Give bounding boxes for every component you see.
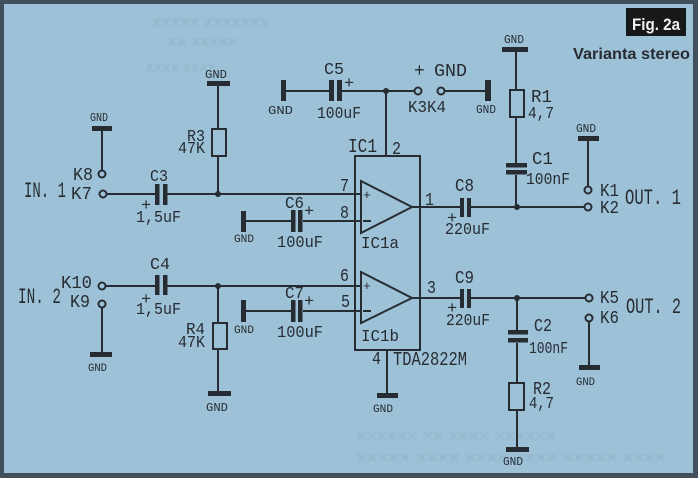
- capacitor C2: [508, 317, 568, 359]
- terminal K3: [408, 62, 427, 118]
- wire (K4 to ground): [445, 90, 486, 92]
- ground (left of C6): [234, 211, 254, 246]
- svg-text:K2: K2: [600, 199, 619, 219]
- ground (left of C5): [268, 80, 293, 118]
- ground (left of C7): [234, 300, 254, 337]
- capacitor C6: [277, 195, 323, 253]
- wire (C8 to K2): [471, 206, 584, 208]
- wire (R3 to node): [217, 156, 219, 194]
- svg-text:OUT. 1: OUT. 1: [625, 186, 681, 211]
- svg-text:Varianta stereo: Varianta stereo: [573, 46, 690, 63]
- wire (ground to K8): [101, 131, 103, 170]
- ground (above K8): [90, 111, 112, 131]
- svg-text:GND: GND: [576, 122, 596, 136]
- wire (C9 to K5): [471, 297, 585, 299]
- ground (above K1): [576, 122, 599, 141]
- svg-text:47K: 47K: [178, 140, 206, 159]
- svg-text:4,7: 4,7: [528, 105, 554, 124]
- node IN.1 label: [24, 179, 66, 204]
- subtitle Varianta stereo: [573, 46, 690, 63]
- ground (below R4): [206, 391, 231, 415]
- node supply junction: [383, 88, 389, 94]
- terminal K10: [61, 274, 106, 294]
- wire (C4 to op-amp pin 6): [167, 285, 361, 287]
- resistor R2: [509, 380, 554, 414]
- pin 3 label: [427, 279, 436, 299]
- svg-text:C2: C2: [534, 317, 552, 337]
- node junction C9/C2: [514, 295, 520, 301]
- svg-text:220uF: 220uF: [445, 221, 490, 240]
- ground (below pin 4): [373, 393, 398, 416]
- pin 4 label: [372, 350, 381, 370]
- node OUT.1 label: [625, 186, 681, 211]
- ghost bleedthrough text bottom: [356, 427, 667, 464]
- terminal K8: [73, 166, 106, 186]
- svg-text:K7: K7: [71, 185, 92, 205]
- svg-text:IC1a: IC1a: [361, 235, 399, 254]
- wire (pin 1 to C8): [412, 206, 460, 208]
- op-amp IC1b: [361, 272, 412, 347]
- ground (above R3): [205, 68, 230, 86]
- node IN.2 label: [18, 285, 61, 310]
- wire (ground to R3): [217, 86, 219, 129]
- svg-text:6: 6: [340, 267, 349, 287]
- svg-text:K6: K6: [600, 309, 619, 329]
- svg-text:47K: 47K: [178, 334, 206, 353]
- wire (R1 to C1): [515, 117, 517, 163]
- svg-text:IN. 1: IN. 1: [24, 179, 66, 204]
- wire (K6 to ground): [588, 322, 590, 365]
- wire (C3 to op-amp pin 7): [167, 193, 361, 195]
- svg-text:GND: GND: [504, 33, 524, 47]
- svg-text:4: 4: [372, 350, 381, 370]
- ground (below K9): [88, 352, 112, 375]
- wire (pin 2 vertical): [385, 91, 387, 156]
- svg-text:xx xxxxx: xx xxxxx: [168, 33, 237, 49]
- wire (K7 to C3): [107, 193, 155, 195]
- terminal K7: [71, 185, 107, 205]
- wire (C6 to op-amp pin 8): [303, 220, 361, 222]
- op-amp U1 package outline IC1: [348, 136, 467, 371]
- terminal K6: [586, 309, 620, 329]
- svg-text:100uF: 100uF: [317, 105, 361, 124]
- svg-text:xxxxx xxxxxxx: xxxxx xxxxxxx: [152, 12, 270, 31]
- svg-text:3: 3: [427, 279, 436, 299]
- capacitor C7: [277, 285, 323, 343]
- svg-text:100uF: 100uF: [277, 324, 323, 343]
- terminal K1: [585, 182, 620, 202]
- wire (ground to C7): [245, 310, 291, 312]
- pin 8 label: [340, 204, 349, 224]
- svg-text:TDA2822M: TDA2822M: [393, 349, 467, 371]
- wire (R2 to ground): [516, 410, 518, 447]
- wire (C2 to R2): [516, 343, 518, 383]
- ground (above R1): [502, 33, 528, 52]
- wire (C7 to op-amp pin 5): [303, 310, 361, 312]
- node junction C8/C1: [514, 204, 520, 210]
- svg-text:GND: GND: [90, 111, 108, 125]
- svg-text:xxxxxx xx xxxx xxxxxx: xxxxxx xx xxxx xxxxxx: [356, 427, 557, 442]
- svg-text:+: +: [304, 203, 314, 222]
- node junction C3/R3: [215, 191, 221, 197]
- ghost bleedthrough text top: [146, 12, 270, 74]
- svg-text:K8: K8: [73, 166, 93, 186]
- svg-text:GND: GND: [206, 401, 228, 415]
- svg-text:IC1: IC1: [348, 136, 377, 158]
- resistor R4: [178, 321, 227, 353]
- capacitor C5: [317, 61, 361, 124]
- svg-text:GND: GND: [576, 377, 595, 389]
- terminal K4: [427, 62, 467, 118]
- svg-text:1,5uF: 1,5uF: [136, 209, 181, 228]
- svg-text:C3: C3: [150, 168, 168, 187]
- capacitor C1: [506, 150, 570, 190]
- wire (K9 to ground): [101, 308, 103, 352]
- svg-text:K9: K9: [70, 293, 90, 313]
- svg-text:OUT. 2: OUT. 2: [626, 295, 681, 320]
- pin 6 label: [340, 267, 349, 287]
- svg-text:1,5uF: 1,5uF: [136, 301, 181, 320]
- terminal K2: [585, 199, 620, 219]
- wire (R4 to ground): [217, 349, 219, 391]
- wire (K10 to C4): [106, 285, 155, 287]
- svg-text:100nF: 100nF: [529, 340, 568, 359]
- svg-text:220uF: 220uF: [446, 312, 490, 331]
- svg-text:+: +: [363, 188, 371, 203]
- svg-text:GND: GND: [476, 103, 496, 117]
- wire (node to C2): [516, 298, 518, 330]
- svg-text:+: +: [304, 293, 314, 312]
- svg-text:IN. 2: IN. 2: [18, 285, 61, 310]
- svg-text:+: +: [363, 279, 371, 294]
- svg-text:+: +: [414, 62, 425, 82]
- wire (ground to K1): [587, 141, 589, 186]
- svg-text:C9: C9: [455, 269, 474, 289]
- svg-text:GND: GND: [434, 62, 467, 82]
- svg-text:C5: C5: [324, 61, 344, 80]
- wire (C5 to node supply): [342, 90, 415, 92]
- svg-text:K10: K10: [61, 274, 92, 294]
- terminal K5: [586, 289, 620, 309]
- svg-text:K4: K4: [427, 99, 446, 118]
- ground (below R2): [503, 447, 529, 469]
- svg-text:C7: C7: [285, 285, 304, 304]
- svg-text:GND: GND: [503, 455, 523, 469]
- svg-text:K5: K5: [600, 289, 619, 309]
- svg-text:4,7: 4,7: [529, 395, 554, 414]
- node OUT.2 label: [626, 295, 681, 320]
- svg-text:5: 5: [341, 293, 350, 313]
- pin 1 label: [425, 191, 434, 211]
- resistor R3: [178, 128, 226, 159]
- wire (C5 ground to C5): [285, 90, 329, 92]
- terminal K9: [70, 293, 106, 313]
- wire (ground to R1): [515, 52, 517, 90]
- svg-text:GND: GND: [234, 234, 254, 246]
- ground (right of K4): [476, 80, 496, 117]
- svg-text:GND: GND: [234, 325, 254, 337]
- Fig. 2a title box: [626, 8, 686, 36]
- wire (pin 3 to C9): [412, 297, 460, 299]
- op-amp IC1a: [361, 181, 412, 254]
- svg-text:GND: GND: [268, 104, 293, 118]
- svg-text:7: 7: [340, 177, 349, 197]
- svg-text:100uF: 100uF: [277, 234, 323, 253]
- svg-text:C8: C8: [455, 177, 474, 197]
- pin 7 label: [340, 177, 349, 197]
- capacitor C8: [445, 177, 490, 240]
- ground (below K6): [576, 365, 600, 389]
- capacitor C3: [136, 168, 181, 228]
- svg-text:Fig. 2a: Fig. 2a: [632, 15, 680, 34]
- svg-text:C1: C1: [532, 150, 553, 170]
- svg-text:8: 8: [340, 204, 349, 224]
- svg-text:GND: GND: [205, 68, 227, 82]
- capacitor C9: [446, 269, 490, 331]
- wire (node to R4): [217, 286, 219, 323]
- svg-text:C4: C4: [150, 256, 170, 275]
- svg-text:2: 2: [392, 140, 401, 160]
- svg-text:K3: K3: [408, 99, 427, 118]
- svg-text:GND: GND: [88, 363, 107, 375]
- svg-text:GND: GND: [373, 404, 393, 416]
- svg-text:100nF: 100nF: [526, 171, 570, 190]
- wire (ground to C6): [245, 220, 291, 222]
- resistor R1: [510, 88, 554, 124]
- svg-text:C6: C6: [285, 195, 304, 214]
- svg-text:IC1b: IC1b: [361, 328, 399, 347]
- wire (C1 to node): [515, 175, 517, 207]
- capacitor C4: [136, 256, 181, 320]
- wire (pin 4 to ground): [386, 350, 388, 393]
- node junction C4/R4: [215, 283, 221, 289]
- pin 5 label: [341, 293, 350, 313]
